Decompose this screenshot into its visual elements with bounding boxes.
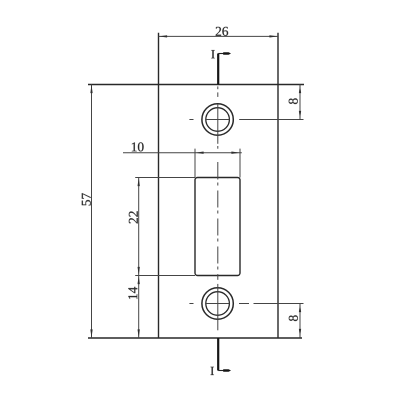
top hole horizontal center line dashes bbox=[189, 119, 193, 121]
dim 10 line bbox=[123, 152, 242, 154]
top hole horizontal diameter bbox=[206, 119, 229, 121]
bottom hole outer circle bbox=[202, 288, 233, 319]
center lines bbox=[189, 86, 303, 330]
top hole inner circle bbox=[206, 108, 230, 132]
dim 8 top line bbox=[299, 85, 301, 120]
section line I bottom bbox=[217, 338, 219, 371]
top hole outer circle bbox=[202, 104, 233, 135]
dim 8 bottom line bbox=[299, 304, 301, 338]
dim 57 top arrow bbox=[90, 85, 92, 94]
dim 10 extension left / opening left edge extension bbox=[194, 149, 196, 178]
label 8 top bbox=[289, 98, 298, 104]
dim 14 top arrow bbox=[138, 276, 140, 285]
plate left edge bbox=[158, 33, 160, 338]
plate bottom edge bbox=[88, 337, 302, 339]
label 10 bbox=[132, 142, 144, 151]
dim 26 right arrow bbox=[269, 35, 278, 37]
dim 10 extension right / opening right edge extension bbox=[239, 149, 241, 178]
latch opening rounded rect bbox=[195, 178, 240, 276]
dim 57 bottom arrow bbox=[90, 329, 92, 338]
label 26 bbox=[216, 27, 228, 36]
vertical center line (dash-dot segments) bbox=[217, 86, 219, 89]
dim 8 bottom arrows bbox=[299, 304, 301, 313]
label 8 bottom bbox=[289, 315, 298, 321]
dim 22 extension bottom bbox=[135, 275, 195, 277]
dimension texts bbox=[82, 27, 298, 375]
section cut marks bbox=[218, 52, 231, 372]
dim 8 top arrows bbox=[299, 85, 301, 94]
bottom hole horizontal diameter bbox=[206, 303, 229, 305]
dim 22 bottom arrow bbox=[138, 267, 140, 276]
dim 57 line bbox=[91, 85, 93, 339]
section line I top bbox=[217, 54, 219, 85]
dimension lines bbox=[92, 36, 301, 338]
label 57 bbox=[82, 193, 91, 205]
label I bottom bbox=[211, 367, 214, 375]
plate right edge bbox=[277, 33, 279, 338]
dim 26 left arrow bbox=[159, 35, 168, 37]
dim 22 line bbox=[138, 178, 140, 276]
dim 22 extension top bbox=[135, 177, 195, 179]
dim 10 left arrow bbox=[195, 152, 204, 154]
bottom hole horizontal center line dashes bbox=[189, 303, 193, 305]
dim 26 line bbox=[159, 35, 279, 37]
dim 14 bottom arrow bbox=[138, 329, 140, 338]
label 14 bbox=[128, 287, 137, 299]
bottom hole inner circle bbox=[206, 292, 230, 316]
plate top edge bbox=[88, 84, 304, 86]
label 22 bbox=[129, 211, 138, 223]
label I top bbox=[211, 50, 214, 58]
dimension arrowheads bbox=[90, 35, 301, 338]
dim 22 top arrow bbox=[138, 178, 140, 187]
dim 10 right arrow bbox=[231, 152, 240, 154]
dim 14 line bbox=[138, 276, 140, 339]
